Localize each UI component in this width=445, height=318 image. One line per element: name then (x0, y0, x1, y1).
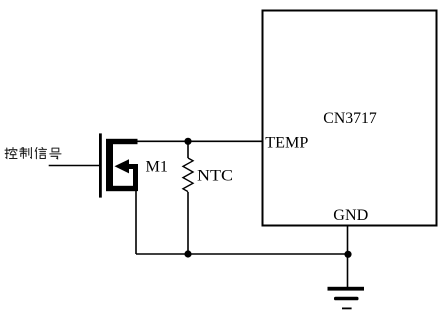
svg-text:NTC: NTC (197, 168, 233, 185)
svg-text:M1: M1 (146, 159, 169, 176)
svg-text:TEMP: TEMP (265, 134, 308, 151)
svg-text:CN3717: CN3717 (323, 110, 377, 127)
svg-text:GND: GND (333, 207, 368, 224)
